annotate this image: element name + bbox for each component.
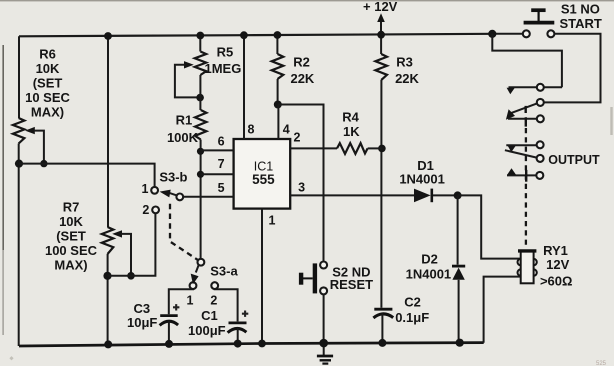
wire: D2 to ground rail [458,280,460,343]
wire: relay coil bottom to ground rail [484,277,521,343]
wire: R5 bottom to R1 [199,75,201,110]
power +12V supply arrow [363,0,398,35]
node: R4 / R3 junction [378,145,386,153]
svg-text:1: 1 [269,213,276,227]
svg-text:1N4001: 1N4001 [406,266,452,281]
mechanical link S3-b to S3-a (dashed) [170,204,198,260]
wire: R3 bottom down to C2 [380,80,382,308]
svg-text:4: 4 [283,123,290,137]
svg-text:RESET: RESET [330,277,373,292]
diode D2 1N4001 [406,252,466,282]
svg-text:1N4001: 1N4001 [399,171,445,186]
relay contact C (stationary) [508,106,544,127]
svg-text:6: 6 [218,135,225,149]
wire: center vertical (R7 branch) [107,36,109,345]
pin 5 wire and label [183,181,233,197]
pin 8 wire and label [244,35,255,139]
node: pin 7 junction [197,171,204,178]
relay contact F (stationary) [507,168,543,181]
svg-text:START: START [560,16,602,31]
diode D1 1N4001 [399,158,457,202]
wire: C3 to ground rail [168,321,170,344]
svg-text:22K: 22K [290,71,314,86]
wire: D1 node down to D2 [457,195,459,264]
ground symbol [317,343,333,364]
resistor R1 100K [167,110,206,145]
node: rail junction dots [104,31,464,349]
wire: R6 bottom to S3-b contact 1 [19,164,155,187]
svg-text:10K: 10K [59,214,83,229]
svg-text:1: 1 [187,294,194,308]
svg-text:1MEG: 1MEG [204,61,241,76]
resistor R7 10K potentiometer [45,200,131,276]
svg-text:R2: R2 [293,55,310,70]
svg-text:1K: 1K [343,124,360,139]
svg-text:100μF: 100μF [188,323,226,338]
wire: C2 to ground rail [381,313,383,343]
relay contact arm B [506,99,544,120]
svg-text:S3-a: S3-a [210,264,238,279]
svg-text:R4: R4 [342,109,359,124]
svg-text:(SET: (SET [33,76,63,91]
wire: R1 bottom to pins 6,7 and S3-a common [200,140,202,259]
svg-text:>60Ω: >60Ω [540,274,572,289]
resistor R5 1MEG potentiometer [175,45,241,98]
wire: top supply rail [19,34,492,37]
node: rail / latch junction [488,30,496,38]
wire: S3-a contact 2 to C1 [215,289,238,322]
wire: R7 bottom to S3-b contact 2 [108,213,156,275]
wire: R3 top from rail [380,35,382,54]
svg-text:MAX): MAX) [54,258,87,273]
pushbutton S2 reset [301,262,373,295]
relay contact D (stationary) [506,141,543,152]
svg-text:MAX): MAX) [31,105,64,120]
svg-text:10 SEC: 10 SEC [25,90,70,105]
svg-text:S1 NO: S1 NO [561,1,600,16]
svg-text:0.1μF: 0.1μF [395,310,429,325]
svg-text:C1: C1 [201,308,218,323]
wire: S1 right contact to relay contact arm B [544,34,601,103]
wire: S2 bottom to ground rail [323,294,325,343]
wire: left branch vertical (R6 branch) [18,36,20,346]
svg-text:10μF: 10μF [127,315,157,330]
resistor R6 10K potentiometer [13,47,71,164]
svg-text:S3-b: S3-b [159,170,187,185]
wire: D1 node to relay coil top [458,195,521,258]
svg-text:2: 2 [294,130,301,144]
svg-text:100K: 100K [167,130,199,145]
svg-text:2: 2 [142,203,149,217]
wire: R2 top from rail [276,35,278,54]
node: D1 / D2 / relay junction [454,191,462,199]
node: R7 bottom junction [103,272,134,280]
svg-text:R1: R1 [176,113,193,128]
switch S3-b [142,170,188,218]
svg-text:R5: R5 [217,45,234,60]
wire: rail to S1 left contact [492,33,523,35]
resistor R3 22K [375,54,419,86]
wire: S3-a contact 1 to C3 [169,289,193,314]
svg-text:2: 2 [210,294,217,308]
pin 2 wire and label [290,130,337,148]
resistor R4 1K [337,109,382,154]
svg-text:C3: C3 [133,301,150,316]
relay coil RY1 [518,243,573,288]
mechanical link: relay armature (dashed) [525,128,527,249]
svg-text:3: 3 [298,180,305,194]
svg-text:10K: 10K [36,61,60,76]
pin 6 wire and label [201,135,234,151]
svg-text:R3: R3 [396,55,413,70]
svg-text:R7: R7 [63,200,80,215]
wire: R2 bottom to pin4 node [277,79,279,105]
svg-text:12V: 12V [546,257,569,272]
capacitor C1 100uF [188,308,248,338]
svg-text:5: 5 [218,181,225,195]
svg-text:22K: 22K [395,71,419,86]
pin 3 wire and label [290,180,414,195]
IC1 555 timer [234,139,291,209]
node: R5 bottom / R1 top junction [196,94,204,102]
relay contact A (latch NO) [507,84,562,95]
wire: pin4 node to S2 reset line [278,105,324,262]
wire: R5 top from rail [199,35,201,51]
svg-text:7: 7 [218,157,225,171]
resistor R2 22K [272,54,315,86]
svg-text:C2: C2 [404,295,421,310]
pin 1 wire and label [262,209,276,344]
svg-text:D2: D2 [421,252,438,267]
capacitor C3 10uF [127,301,179,330]
node: pin 6 junction [197,148,204,155]
wire: C1 to ground rail [237,328,239,343]
svg-text:+ 12V: + 12V [363,0,398,14]
svg-text:(SET: (SET [56,229,86,244]
svg-text:R6: R6 [39,47,56,62]
svg-text:1: 1 [142,182,149,196]
svg-text:525: 525 [596,361,607,366]
pin 4 wire and label [278,105,289,140]
wire: latch loop to contact A [492,34,562,88]
node: pin 4 / R2 / S2 junction [274,101,282,109]
capacitor C2 0.1uF [373,295,429,325]
svg-text:RY1: RY1 [543,243,568,258]
svg-text:OUTPUT: OUTPUT [548,153,600,167]
node: R6 bottom junction [15,160,48,168]
relay contact arm E (output) [505,150,600,167]
pin 7 wire and label [201,157,234,174]
pushbutton S1 start [523,1,602,37]
svg-text:8: 8 [248,123,255,137]
svg-text:555: 555 [252,172,275,187]
svg-text:100 SEC: 100 SEC [45,243,98,258]
switch S3-a [187,259,239,308]
wire: ground rail (bottom) [19,343,484,346]
